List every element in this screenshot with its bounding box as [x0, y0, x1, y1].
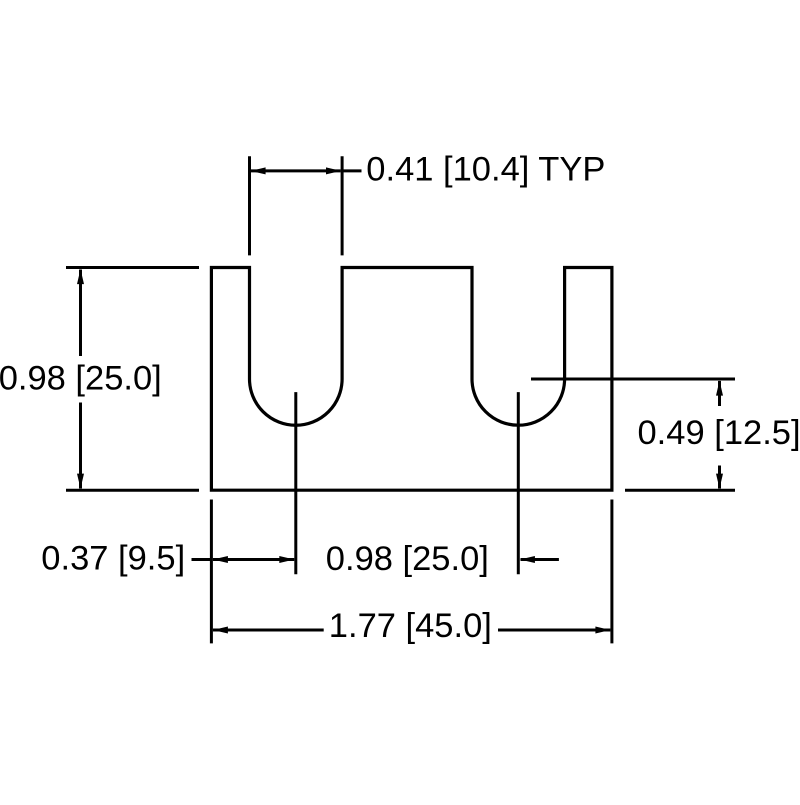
dimension 0.37 leader from text: [192, 558, 212, 561]
dimension 0.41 dimension line: [251, 169, 341, 172]
dimension 1.77 dimension line left segment: [213, 629, 324, 632]
dimension 0.37 arrowhead right: [279, 556, 294, 563]
dimension 0.41 leader tail: [342, 169, 361, 172]
slot 1 centerline: [294, 392, 297, 574]
dimension 0.49 extension line top: [531, 377, 735, 380]
dimension 0.98 left arrowhead up: [77, 269, 84, 284]
dimension 0.49 dimension line upper segment: [718, 381, 721, 406]
dimension 1.77 arrowhead left: [213, 627, 228, 634]
dimension 1.77 dimension line right segment: [498, 629, 610, 632]
svg-text:0.98 [25.0]: 0.98 [25.0]: [0, 360, 162, 398]
svg-text:0.49 [12.5]: 0.49 [12.5]: [638, 414, 800, 452]
svg-text:0.98 [25.0]: 0.98 [25.0]: [326, 540, 489, 578]
dimension 1.77 arrowhead right: [595, 627, 610, 634]
dimension 0.98 bottom right arrow tail: [521, 558, 559, 561]
dimension 0.98 bottom arrowhead left-pointing: [520, 556, 535, 563]
dimension 0.49 arrowhead up: [716, 381, 723, 396]
dimension 0.98 left dimension line upper segment: [79, 270, 82, 357]
dimension 0.98 left arrowhead down: [77, 474, 84, 489]
dimension 0.49 extension line bottom: [625, 489, 735, 492]
dimension 0.98 left extension line top: [66, 266, 199, 269]
dimension 0.41 extension line left: [248, 156, 251, 255]
svg-text:0.41 [10.4] TYP: 0.41 [10.4] TYP: [366, 150, 605, 188]
dimension 0.37 arrowhead left: [213, 556, 228, 563]
part outline: plate with two U-slots: [211, 268, 612, 491]
bottom extension line from part left edge: [210, 500, 213, 644]
dimension 0.98 left extension line bottom: [66, 489, 199, 492]
svg-text:0.37 [9.5]: 0.37 [9.5]: [41, 539, 185, 577]
dimension 0.98 left dimension line lower segment: [79, 403, 82, 489]
svg-text:1.77 [45.0]: 1.77 [45.0]: [329, 607, 492, 645]
dimension 0.41 arrowhead right: [326, 167, 341, 174]
dimension 0.41 arrowhead left: [251, 167, 266, 174]
dimension 0.37 dimension line: [213, 558, 294, 561]
bottom extension line from part right edge: [610, 500, 613, 644]
dimension 0.41 extension line right: [341, 156, 344, 255]
dimension 0.49 dimension line lower segment: [718, 466, 721, 489]
slot 2 centerline: [517, 392, 520, 574]
dimension 0.49 arrowhead down: [716, 474, 723, 489]
